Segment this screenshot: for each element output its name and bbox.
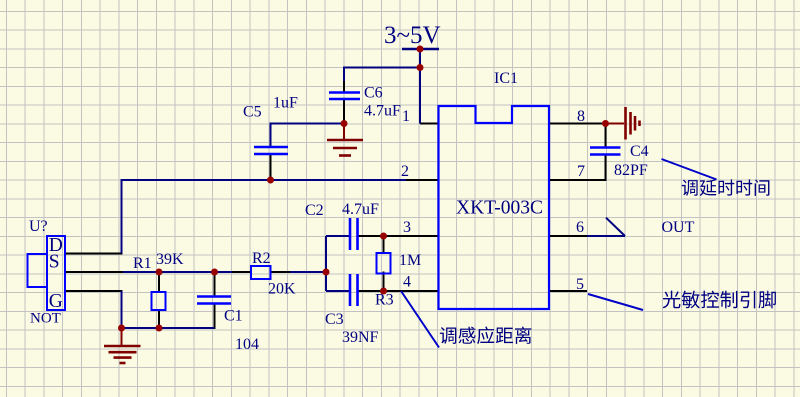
wire power tee to C6 branch [344, 67, 420, 69]
svg-text:IC1: IC1 [494, 70, 518, 87]
pin R1 bottom [158, 309, 160, 328]
svg-text:1M: 1M [399, 252, 421, 269]
power port 3~5V bar [402, 48, 439, 51]
wire C5 drop [270, 123, 272, 148]
svg-text:2: 2 [401, 163, 409, 180]
svg-text:1: 1 [402, 108, 410, 125]
pin IC1 8 [549, 123, 606, 125]
pin R2 left [232, 271, 251, 273]
label 调延时时间 (adjust delay time) [682, 179, 770, 196]
capacitor C5 [254, 147, 288, 154]
pin R3 top [383, 236, 385, 254]
pin IC1 2 [401, 179, 439, 181]
resistor R3 [377, 253, 391, 274]
wire C3 right to pin 4 [358, 290, 402, 292]
pin C1 top [214, 272, 216, 297]
svg-text:C5: C5 [243, 104, 262, 121]
svg-text:1uF: 1uF [273, 95, 298, 112]
junction C5 on pin2 wire [267, 177, 274, 184]
wire to C2 left plate [326, 235, 350, 237]
junction branch [323, 269, 330, 276]
wire G drop [121, 291, 123, 328]
svg-text:39K: 39K [156, 251, 184, 268]
capacitor C2 [350, 218, 358, 250]
wire OUT flag diagonal [606, 218, 625, 236]
wire C6 junction to C5 [271, 123, 345, 125]
pin IC1 7 [549, 179, 606, 181]
svg-text:20K: 20K [268, 281, 296, 298]
wire C6 drop [343, 67, 345, 82]
pin R1 top [158, 272, 160, 293]
svg-text:OUT: OUT [662, 219, 695, 236]
resistor R1 [152, 292, 166, 310]
svg-text:C1: C1 [224, 308, 243, 325]
wire R2 right to branch junction [290, 271, 326, 273]
IC IC1 XKT-003C body [439, 106, 550, 309]
ground bottom left [104, 328, 141, 363]
svg-text:104: 104 [235, 336, 259, 353]
junction R3 top [380, 233, 387, 240]
svg-text:4.7uF: 4.7uF [364, 103, 401, 120]
label 光敏控制引脚 (light-control pin) [663, 291, 776, 309]
svg-text:4.7uF: 4.7uF [342, 201, 379, 218]
pin C4 bottom [605, 154, 607, 181]
svg-text:C6: C6 [364, 85, 383, 102]
pin IC1 1 [420, 123, 439, 125]
ground under C6 [327, 124, 363, 156]
svg-text:U?: U? [29, 218, 48, 235]
junction bottom left [118, 325, 125, 332]
junction R1 top [156, 269, 163, 276]
svg-text:5: 5 [576, 276, 584, 293]
pin IC1 6 [549, 235, 587, 237]
svg-text:8: 8 [577, 108, 585, 125]
capacitor C4 [590, 148, 621, 155]
wire bottom net [122, 327, 215, 329]
pin U? S [65, 271, 123, 273]
capacitor C3 [350, 274, 358, 306]
wire pin 2 net [122, 179, 407, 181]
svg-text:82PF: 82PF [614, 162, 648, 179]
svg-text:4: 4 [403, 274, 411, 291]
svg-text:3~5V: 3~5V [384, 22, 441, 49]
pin C1 bottom [214, 303, 216, 329]
pin U? G [65, 290, 123, 292]
annotation line to light-control label [588, 294, 643, 310]
transistor U? (sensor D/S/G) [28, 236, 66, 310]
svg-text:C3: C3 [325, 311, 344, 328]
pin R3 bottom [383, 272, 385, 292]
pin C5 bottom [270, 154, 272, 180]
wire C2 right to pin 3 [358, 235, 402, 237]
pin R2 right [271, 271, 290, 273]
wire branch vertical [325, 236, 327, 291]
wire S row to R2 [123, 271, 232, 273]
annotation line to delay-time label [662, 159, 717, 180]
junction C6/ground [341, 120, 348, 127]
wire to C3 left plate [326, 290, 350, 292]
label 调感应距离 (adjust sensing distance) [440, 327, 532, 344]
annotation line to sense-distance label [401, 291, 439, 348]
wire left drop to D pin [121, 179, 123, 254]
svg-text:C4: C4 [630, 143, 649, 160]
svg-text:3: 3 [403, 219, 411, 236]
svg-text:7: 7 [577, 163, 585, 180]
junction C1 top [211, 269, 218, 276]
svg-text:S: S [49, 252, 60, 273]
resistor R2 [251, 266, 271, 279]
svg-text:XKT-003C: XKT-003C [456, 198, 543, 219]
junction on power bar [417, 46, 424, 53]
wire OUT stub [587, 235, 625, 237]
pin U? D [65, 253, 123, 255]
wire power down to pin 1 [419, 68, 421, 124]
svg-text:6: 6 [576, 219, 584, 236]
junction R3 bottom [380, 288, 387, 295]
svg-text:G: G [49, 291, 63, 312]
pin IC1 5 [549, 290, 587, 292]
pin C6 top [343, 80, 345, 93]
pin IC1 4 [401, 290, 439, 292]
pin C6 bottom [343, 99, 345, 124]
ground right of pin 8 (rotated) [606, 107, 640, 140]
capacitor C6 [329, 93, 360, 100]
pin C4 top [605, 124, 607, 149]
junction power tee [417, 64, 424, 71]
svg-text:NOT: NOT [30, 311, 61, 327]
svg-text:R2: R2 [252, 250, 271, 267]
svg-text:R1: R1 [133, 255, 152, 272]
wire power stem [419, 49, 421, 68]
svg-text:39NF: 39NF [342, 329, 379, 346]
pin IC1 3 [401, 235, 439, 237]
svg-text:C2: C2 [305, 202, 324, 219]
junction pin8/C4 [602, 120, 609, 127]
junction R1 bottom [156, 325, 163, 332]
capacitor C1 [197, 297, 231, 304]
